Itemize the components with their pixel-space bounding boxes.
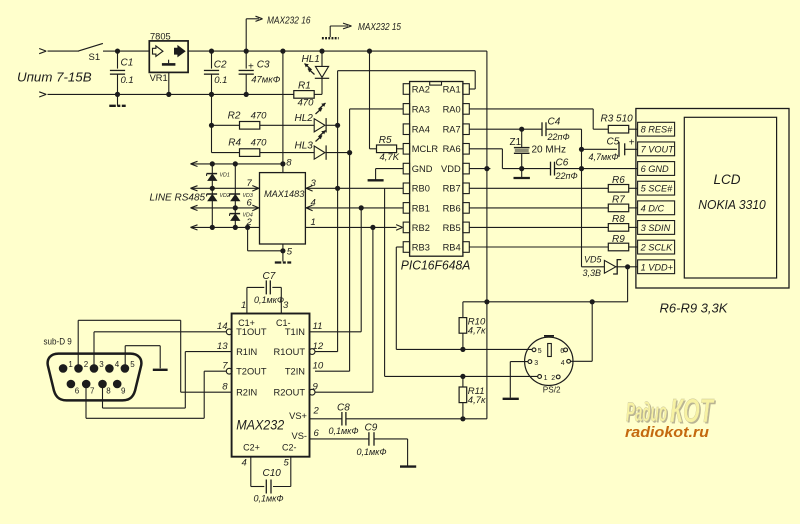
LCD pin box 2 SCLK [638,240,675,254]
capacitor C10 0,1мкФ [251,457,291,504]
svg-text:4: 4 [242,458,247,469]
svg-text:1 VDD+: 1 VDD+ [641,262,674,272]
LCD pin box 5 SCE# [638,181,675,195]
LCD pin box 3 SDIN [638,221,675,235]
wire RS485 line A (pin 6) with arrow [191,198,260,211]
LED HL2 [260,103,338,133]
svg-text:MCLR: MCLR [412,144,439,154]
svg-text:RA3: RA3 [412,104,430,114]
svg-text:C10: C10 [263,468,282,479]
capacitor C4 22пФ [542,116,582,141]
svg-text:RA6: RA6 [443,144,461,154]
wire/arrow MAX232 16 [246,16,311,52]
svg-text:RB7: RB7 [443,184,461,194]
LCD pin box 1 VDD+ [638,260,675,274]
wire DB9 pin5 to ground [125,346,167,370]
resistor R7 3,3K [469,195,637,212]
svg-text:+: + [248,62,254,73]
wire MAX1483 pin 5 [283,244,293,261]
node pin8 [280,161,285,166]
svg-text:5: 5 [130,360,135,369]
svg-text:3: 3 [99,360,104,369]
svg-text:7 VOUT: 7 VOUT [641,144,676,154]
resistor R2 470 [212,110,268,129]
svg-text:3 SDIN: 3 SDIN [641,223,671,233]
ground below Z1 [514,169,530,178]
LCD pin box 7 VOUT [638,142,676,156]
LED HL3 [260,131,350,160]
node C3 top [244,49,249,54]
watermark radiokot.ru [625,425,709,441]
svg-text:3,3В: 3,3В [583,268,602,278]
diode VD5 3,3В (zener) [583,254,628,278]
LCD connector outer box [636,109,789,289]
svg-text:14: 14 [217,321,228,332]
svg-text:4,7мкФ: 4,7мкФ [589,152,619,162]
svg-text:4,7к: 4,7к [468,326,486,337]
svg-text:MAX232: MAX232 [236,417,284,433]
svg-text:R1OUT: R1OUT [273,347,305,357]
svg-text:0,1мкФ: 0,1мкФ [357,447,387,457]
svg-text:1: 1 [544,375,548,382]
node gnd row to LCD [579,166,584,171]
wire DB9 pin3 to T1OUT [94,332,226,366]
svg-text:T2IN: T2IN [285,367,305,377]
IC U3 MAX232 [217,300,324,468]
node VR1 gnd [166,92,171,97]
wire +5 down right side [486,169,488,302]
wire DB9 pin7 to T2OUT [86,371,226,418]
svg-text:4 D/C: 4 D/C [641,203,665,213]
svg-text:4,7K: 4,7K [380,152,400,163]
svg-text:RA2: RA2 [412,84,430,94]
svg-text:5: 5 [538,348,542,355]
svg-text:8 RES#: 8 RES# [641,125,674,135]
svg-text:R2: R2 [228,110,241,121]
wire DB9 pin8 to R1IN [103,352,232,409]
svg-text:9: 9 [313,381,319,392]
svg-text:RB2: RB2 [412,223,430,233]
capacitor C5 4,7мкФ [582,137,638,162]
svg-text:C9: C9 [365,422,378,433]
diode VD3 [230,164,253,208]
resistor R9 3,3K [469,234,637,251]
svg-text:RB6: RB6 [443,203,461,213]
svg-text:C1-: C1- [276,318,291,328]
svg-text:VD3: VD3 [243,193,253,199]
svg-text:5: 5 [287,247,293,258]
node VD3/VD4 [233,205,238,210]
svg-text:VS-: VS- [292,431,308,441]
node VDD [484,166,489,171]
svg-text:RA7: RA7 [443,125,461,135]
node pin 5 [280,248,285,253]
svg-text:22пФ: 22пФ [547,132,570,142]
svg-text:6 GND: 6 GND [641,164,669,174]
svg-text:T1IN: T1IN [285,327,305,337]
crystal Z1 20 MHz [510,129,566,168]
wire +5 down to pin8 node [282,51,284,164]
IC U2 MAX1483 [260,173,306,244]
wire RA1 to HL2 node [338,71,476,126]
wire RA3 corner to T2IN [315,109,403,371]
svg-text:R1: R1 [298,80,311,91]
node HL1 top [319,49,324,54]
svg-text:RB1: RB1 [412,203,430,213]
svg-text:6: 6 [560,348,564,355]
svg-text:22пФ: 22пФ [555,171,578,181]
diode VD2 [207,188,230,227]
svg-text:MAX232 16: MAX232 16 [267,16,311,27]
wire MAX1483 pin 1 to RB2 [305,217,402,230]
connector PS/2 [525,336,573,395]
LCD inner box [684,117,776,278]
svg-text:C3: C3 [257,60,270,71]
wire DB9 pin2 to R2IN [78,320,231,392]
svg-text:GND: GND [412,164,433,174]
label LCD [714,172,741,187]
label Uпит 7-15В [17,69,92,84]
svg-text:T2OUT: T2OUT [236,367,267,377]
node +5/R10/VDD+ [484,299,489,304]
svg-text:VD5: VD5 [584,254,603,264]
svg-text:VS+: VS+ [289,411,307,421]
svg-text:C1+: C1+ [238,318,255,328]
svg-text:8: 8 [106,386,111,395]
wire MAX1483 pin 8 [283,158,292,173]
svg-text:Радио: Радио [626,397,667,427]
wire +5V rail [188,50,487,52]
node HL3 cathode [347,150,352,155]
capacitor C6 22пФ [522,157,582,181]
svg-text:C1: C1 [121,57,134,68]
svg-text:47мкФ: 47мкФ [251,75,281,86]
node VDD+ [625,264,630,269]
wire RA0 to R3 [469,109,608,129]
label NOKIA 3310 [698,197,766,212]
node R11 bottom [460,416,465,421]
diode VD1 [207,164,230,188]
svg-text:R5: R5 [379,135,392,146]
label R6-R9 3,3K [660,301,729,316]
svg-text:RA0: RA0 [443,104,461,114]
watermark Радио КОТ [626,392,716,430]
svg-text:C6: C6 [556,157,569,168]
svg-text:C8: C8 [337,403,350,414]
node PS2 pin4 branch [590,299,595,304]
svg-text:7: 7 [247,178,253,189]
svg-text:9: 9 [121,386,126,395]
svg-text:PIC16F648A: PIC16F648A [401,257,471,272]
wire RB0 row to PS/2 data [385,188,538,376]
svg-text:4: 4 [561,360,565,367]
wire/arrow MAX232 15 with ground [322,22,402,38]
node C2 bottom [209,92,214,97]
svg-text:0,1мкФ: 0,1мкФ [254,494,284,504]
svg-text:11: 11 [313,321,323,332]
svg-text:NOKIA 3310: NOKIA 3310 [698,197,766,212]
node C1 bottom [115,92,120,97]
svg-text:radiokot.ru: radiokot.ru [625,425,709,441]
LCD pin box 4 D/C [638,201,675,215]
node S1/C1 [115,49,120,54]
wire VDD pin [469,168,490,170]
LCD pin box 8 RES# [638,122,675,136]
node RB1/T1IN [359,205,364,210]
svg-text:2 SCLK: 2 SCLK [640,243,674,253]
wire input bottom rail [48,93,295,95]
svg-text:C5: C5 [607,137,620,148]
svg-text:5: 5 [284,458,290,469]
wire GND pin to ground [368,169,404,181]
wire +5 rail corner down [486,51,488,169]
node C2 top [209,49,214,54]
svg-text:8: 8 [286,158,292,169]
svg-text:VD2: VD2 [220,193,230,199]
svg-text:3: 3 [311,178,317,189]
IC U1 PIC16F648A [401,82,471,273]
svg-text:C2-: C2- [282,443,297,453]
regulator VR1 7805 [149,32,188,83]
connector X1 sub-D 9 [44,336,142,400]
input connector arrow (+ line) [39,49,79,54]
node pin2 gnd branch [245,225,250,230]
node VD4 bottom [233,225,238,230]
svg-text:MAX232 15: MAX232 15 [358,22,401,33]
svg-text:S1: S1 [89,52,101,63]
svg-text:RB0: RB0 [412,184,430,194]
resistor R11 4,7к [459,376,486,418]
resistor R10 4,7к [459,316,486,349]
wire VDD+ down [487,267,628,302]
svg-text:Uпит 7-15В: Uпит 7-15В [17,69,92,84]
svg-text:7805: 7805 [150,32,171,42]
svg-text:6: 6 [247,198,253,209]
node R10/clock [460,347,465,352]
svg-text:0,1мкФ: 0,1мкФ [329,426,359,436]
wire gnd row to LCD pin6 [582,168,638,170]
resistor R5 4,7K [377,135,404,163]
node VD1/VD2 [210,186,215,191]
svg-text:R9: R9 [612,234,625,245]
wire RS485 +5 line with arrow [191,161,283,166]
svg-text:HL1: HL1 [302,54,320,65]
svg-text:HL2: HL2 [295,113,314,124]
wire HL2 node down to RB0 row [337,125,339,188]
svg-text:R3 510: R3 510 [601,114,634,125]
svg-text:C4: C4 [548,116,561,127]
svg-text:LCD: LCD [714,172,741,187]
svg-text:1: 1 [68,360,73,369]
node R2 left [209,123,214,128]
svg-text:8: 8 [222,381,228,392]
node +5 to MAX1483 [280,49,285,54]
svg-text:4: 4 [311,198,316,209]
wire RA6 to osc node [469,149,521,169]
svg-text:T1OUT: T1OUT [236,327,267,337]
resistor R8 3,3K [469,214,637,231]
node RB0/HL2 [335,186,340,191]
svg-text:2: 2 [313,406,320,417]
svg-text:470: 470 [251,138,268,149]
svg-text:R7: R7 [612,195,625,206]
resistor R1 470 [294,80,322,108]
node C4/C5 [579,147,584,152]
LCD pin box 6 GND [638,162,675,176]
wire C4 down to C5 node [581,129,583,149]
svg-text:5 SCE#: 5 SCE# [641,184,674,194]
svg-text:7: 7 [90,386,95,395]
wire S1 to VR1 [118,50,150,52]
capacitor C7 0,1мкФ [247,271,284,313]
svg-text:1: 1 [241,300,246,311]
svg-text:R6: R6 [612,175,625,186]
wire PS2 pin4 supply [571,302,593,362]
wire VR1 ground stem [168,72,170,94]
svg-text:2: 2 [84,360,89,369]
node R11/data [460,374,465,379]
wire RA7 row [469,128,542,130]
wire +5 corner to VS+ line [346,302,487,419]
svg-text:R6-R9 3,3K: R6-R9 3,3K [660,301,729,316]
wire MAX1483 pin 4 from RB1 row [305,198,403,211]
svg-text:Z1: Z1 [510,137,522,148]
svg-text:VDD: VDD [441,164,461,174]
svg-text:0,1мкФ: 0,1мкФ [254,295,284,305]
svg-text:2: 2 [551,375,555,382]
svg-text:RB3: RB3 [412,242,430,252]
switch S1 [78,43,117,63]
svg-text:VD4: VD4 [243,213,253,219]
resistor R3 510 [601,114,638,133]
capacitor C3 (electrolytic) [239,51,281,94]
LED HL1 [302,51,330,94]
svg-text:PS/2: PS/2 [543,385,561,394]
wire RB3 to PS/2 clock [396,247,532,349]
ground below MAX1483 [275,261,291,263]
svg-text:C2: C2 [214,60,227,71]
node HL2 cathode [335,123,340,128]
wire RB1 down to T1IN [310,208,362,332]
wire MAX1483 pin5 ground link [248,227,283,250]
svg-text:R8: R8 [612,214,625,225]
wire left column to R2/R4 [212,94,240,152]
node RA7/Z1 [519,127,524,132]
wire PS2 pin3 to ground [503,362,528,399]
node RB2/R2OUT [370,225,375,230]
svg-text:R1IN: R1IN [236,347,257,357]
wire VD5 node to LCD pin1 [628,266,638,268]
svg-text:10: 10 [313,360,324,371]
wire RS485 ground line (pin 2) with arrow [191,217,260,230]
label LINE RS485 [150,193,206,204]
capacitor C8 0,1мкФ [310,403,359,436]
wire C5 node down to gnd row [581,149,583,168]
svg-text:1: 1 [311,217,316,228]
wire gnd column down to VD5 [582,169,605,267]
capacitor C1 [110,51,134,94]
input connector arrow (- line) [39,92,46,97]
svg-text:4,7к: 4,7к [468,395,486,406]
svg-text:R2OUT: R2OUT [273,388,305,398]
svg-text:R4: R4 [228,138,241,149]
svg-text:6: 6 [75,386,80,395]
svg-text:+: + [629,138,635,149]
svg-text:C2+: C2+ [243,443,260,453]
svg-text:HL3: HL3 [295,140,314,151]
svg-text:VR1: VR1 [150,73,168,83]
node VD2 bottom [210,225,215,230]
wire +5 to R10 [463,302,487,318]
svg-text:MAX1483: MAX1483 [264,189,305,199]
svg-text:C7: C7 [263,271,276,282]
svg-text:VD1: VD1 [220,173,230,179]
svg-text:sub-D 9: sub-D 9 [44,336,72,346]
wire RS485 line B (pin 7) with arrow [191,178,260,191]
svg-text:13: 13 [217,341,228,352]
svg-text:RA1: RA1 [443,84,461,94]
svg-text:0.1: 0.1 [121,75,134,86]
node osc ground [519,166,524,171]
diode VD4 [230,208,253,228]
resistor R4 470 [228,138,267,157]
svg-text:3: 3 [534,360,538,367]
svg-text:КОТ: КОТ [670,392,715,429]
wire MAX1483 pin 3 from RB0 row [305,178,403,191]
svg-text:470: 470 [251,110,268,121]
ground below C1 [109,94,125,105]
svg-text:LINE RS485: LINE RS485 [150,193,206,204]
svg-text:7: 7 [222,360,228,371]
wire RB2 down to R2OUT [315,227,373,392]
svg-text:RA4: RA4 [412,125,430,135]
svg-text:20 MHz: 20 MHz [532,144,566,155]
svg-text:R2IN: R2IN [236,388,257,398]
svg-text:6: 6 [314,428,320,439]
capacitor C2 [204,51,228,94]
node C3 bottom [244,92,249,97]
node VD1 top [210,161,215,166]
capacitor C9 0,1мкФ with ground [310,422,417,466]
svg-text:RB4: RB4 [443,242,461,252]
svg-text:4: 4 [115,360,120,369]
node VD3 top [233,161,238,166]
wire RB0 node down to R1OUT [315,188,338,351]
svg-text:0.1: 0.1 [214,75,227,86]
svg-text:470: 470 [298,98,315,109]
wire +5 branch to R5 [367,49,377,149]
resistor R6 3,3K [469,175,637,192]
svg-text:RB5: RB5 [443,223,461,233]
